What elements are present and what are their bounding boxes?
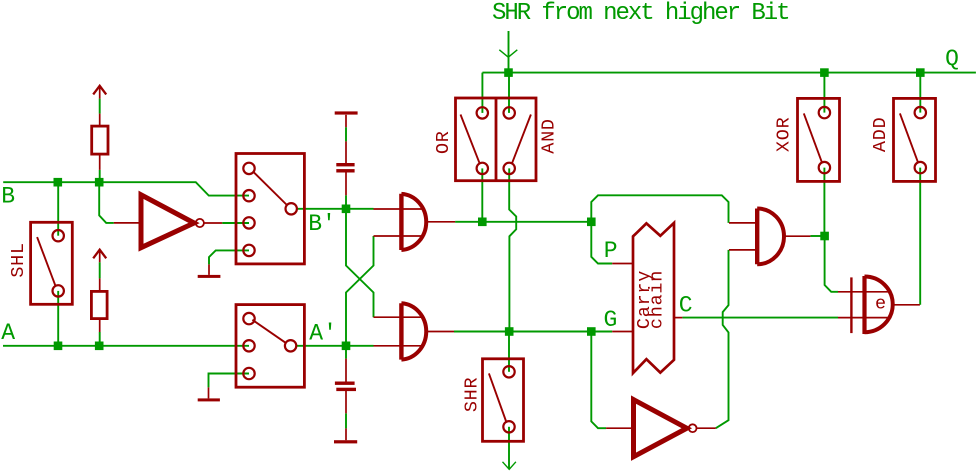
wire: P line from gate U2 output to P branch node [455, 221, 591, 223]
node: Q/ADD junction [916, 68, 925, 77]
pin: R2 top [99, 278, 101, 291]
switch ADD arm [900, 113, 918, 161]
wire: capacitor C1 lower link to B' node [345, 195, 347, 204]
wire: G node down to inverter U5 input [591, 332, 606, 429]
pin: R1 top [99, 114, 101, 127]
pin: gate U2 output [428, 221, 455, 223]
inverter U5 [634, 400, 697, 457]
pin: ground 1 stem [208, 264, 210, 275]
switch AND arm [512, 115, 531, 164]
wire: resistor R2 to A bus node [99, 332, 101, 346]
pin: gate U3 input b [374, 345, 423, 347]
wire: gate U4 output to XOR node [810, 235, 824, 237]
switch SHR box [483, 359, 524, 442]
node: Q/SHR junction [504, 68, 513, 77]
wire: G line node down to SHR switch top pin [508, 332, 510, 372]
switch XOR box [798, 98, 840, 181]
node: B' junction [342, 205, 351, 214]
pin: gate U2 input a [374, 208, 423, 210]
switch SHR pin circles [503, 366, 514, 432]
wire: inverter U5 output up to gate U4 bottom input (jog over C line) [716, 250, 729, 428]
pin: capacitor C1 middle [345, 141, 347, 163]
switch SHR arm [489, 373, 507, 422]
AND gate U4 [757, 209, 784, 265]
wire: A input bus [3, 345, 249, 347]
pin: gate U4 input b [729, 249, 756, 251]
pin: gate U3 input a [374, 316, 423, 318]
pin: capacitor C1 bottom [345, 173, 347, 196]
wire: SHR input from next higher bit (vertical with down arrow) [499, 31, 517, 73]
svg-text:SHR: SHR [462, 377, 483, 413]
switch SHL arm [37, 237, 55, 286]
pin: carry chain G input [612, 331, 633, 333]
capacitor C1 plate 1 [336, 163, 354, 166]
selector A' pin circles [243, 313, 296, 379]
pin: carry chain P input [612, 263, 633, 265]
wire: OR switch bottom pin down to P line node [481, 168, 483, 221]
wire: B input bus [3, 182, 249, 195]
pin: carry chain C output [675, 317, 683, 319]
node: G/AND junction [505, 327, 514, 336]
capacitor C2 rail bar [334, 440, 357, 443]
node: B/SHL junction [54, 178, 63, 187]
wire: B node to SHL switch top pin [57, 182, 59, 236]
node: P branch junction [587, 218, 596, 227]
svg-text:Q: Q [945, 46, 959, 72]
node: XOR/U4 junction [820, 232, 829, 241]
AND gate U2 [401, 194, 426, 250]
svg-text:A: A [1, 320, 15, 346]
wire: gate U6 output up to ADD switch bottom pin [919, 168, 921, 305]
selector B' pin circles [243, 163, 297, 256]
pin: inverter U5 output [697, 427, 716, 429]
svg-text:AND: AND [538, 118, 559, 154]
switch AND pin circles [504, 107, 515, 174]
wire: inverter U1 output to selector pin 3 [222, 222, 249, 224]
capacitor C1 rail bar [335, 111, 358, 114]
svg-text:SHL: SHL [8, 242, 29, 278]
svg-text:A': A' [309, 320, 337, 346]
svg-text:C: C [679, 293, 693, 319]
wire: SHR switch bottom pin to output arrow [503, 427, 516, 470]
switch OR arm [461, 115, 480, 164]
selector A' box [236, 305, 304, 388]
node: Q/XOR junction [820, 68, 829, 77]
pin: gate U6 input a [838, 291, 889, 293]
capacitor C2 plate 2 [336, 388, 356, 391]
wire: Q output bus [482, 72, 976, 74]
svg-text:XOR: XOR [774, 117, 795, 153]
svg-text:e: e [875, 293, 887, 314]
svg-text:G: G [604, 307, 618, 333]
wire: B' node cross down to AND gate U3 upper input [346, 209, 374, 317]
selector B' arm [254, 172, 288, 205]
inverter U1 [141, 195, 204, 248]
wire: C line from carry chain to gate U6 lower input [682, 317, 838, 319]
switch OR/AND divider [495, 98, 498, 181]
selector A' arm [252, 320, 286, 343]
svg-text:P: P [604, 238, 618, 264]
pin: ground 2 stem [208, 387, 210, 398]
switch OR pin circles [477, 107, 488, 174]
switch XOR arm [804, 113, 822, 161]
pin: R1 bottom [99, 154, 101, 170]
pin: capacitor C1 top [345, 115, 347, 127]
selector B' box [236, 154, 304, 264]
wire: P node up and across to gate U4 top input [591, 195, 728, 223]
node: A' junction [342, 342, 351, 351]
switch SHL box [31, 222, 73, 304]
power arrow above R2 [93, 250, 106, 263]
switch OR/AND box [456, 98, 537, 181]
carry chain U7 [633, 223, 674, 373]
switch SHL pin circles [53, 230, 64, 297]
wire: G line from gate U3 output to G node [454, 331, 591, 333]
wire: resistor R1 to B bus node [99, 170, 101, 182]
pin: capacitor C2 bottom [345, 428, 347, 440]
AND gate U3 [401, 303, 426, 359]
wire: P node down to carry chain P input [591, 222, 612, 264]
wire: A' output line [296, 345, 373, 347]
pin: capacitor C2 middle [345, 391, 347, 413]
wire: Q bus corner down to OR switch top pin [481, 73, 483, 113]
resistor R1 [92, 126, 108, 154]
switch XOR pin circles [819, 107, 830, 173]
svg-text:SHR from next higher Bit: SHR from next higher Bit [492, 0, 788, 27]
pin: R2 bottom [99, 319, 101, 332]
pin: gate U2 input b [374, 235, 423, 237]
node: B/R1 junction [95, 178, 104, 187]
wire: capacitor C2 upper link from A' node [345, 350, 347, 359]
wire: A' node cross up to AND gate U2 lower input [346, 236, 374, 346]
capacitor C2 plate 1 [335, 382, 355, 385]
node: A/SHL junction [54, 342, 63, 351]
pin: inverter U1 output [204, 222, 222, 224]
wire: pullup arrow to resistor R2 [99, 262, 101, 278]
wire: B bus to inverter U1 input [99, 182, 114, 223]
wire: XOR switch top pin to Q bus [823, 73, 825, 113]
wire: capacitor C2 lower link to rail bar [345, 413, 347, 428]
node: G branch junction [587, 327, 596, 336]
wire: G node to carry chain G input [591, 331, 612, 333]
capacitor C1 plate 2 [336, 169, 354, 172]
wire: ADD switch top pin to Q bus [919, 73, 921, 113]
switch ADD pin circles [915, 107, 926, 173]
svg-text:OR: OR [433, 130, 454, 154]
pin: capacitor C2 top [345, 359, 347, 382]
wire: selector A' pin 3 to ground [209, 374, 250, 388]
wire: AND switch top pin to Q bus node [508, 73, 510, 113]
svg-text:B: B [1, 183, 15, 209]
pin: gate U4 output [784, 235, 810, 237]
ground 1 bar [198, 275, 221, 278]
gate U6 (e) body [851, 276, 892, 334]
ground 2 bar [198, 398, 220, 401]
pin: inverter U1 input [114, 222, 139, 224]
wire: selector B' pin 4 to ground [209, 250, 249, 264]
wire: capacitor C1 upper link [345, 127, 347, 141]
svg-text:ADD: ADD [870, 117, 891, 153]
node: P/OR junction [478, 218, 487, 227]
svg-text:chain: chain [646, 270, 667, 329]
svg-text:B': B' [308, 211, 336, 237]
power arrow above R1 [93, 86, 106, 99]
wire: B' output line [297, 208, 374, 210]
wire: XOR node down to gate U6 upper input [825, 236, 838, 292]
pin: gate U6 output [893, 304, 920, 306]
pin: gate U3 output [428, 331, 454, 333]
wire: AND switch bottom pin down to G line (jog over P line) [509, 168, 516, 331]
node: A/R2 junction [95, 342, 104, 351]
wire: XOR switch bottom pin down to node [823, 168, 825, 236]
switch ADD box [894, 98, 936, 181]
wire: pullup arrow to resistor R1 [99, 99, 101, 114]
resistor R2 [91, 291, 107, 318]
pin: gate U6 input b [838, 317, 889, 319]
pin: gate U4 input a [729, 222, 756, 224]
wire: SHL switch bottom pin to A bus [57, 291, 59, 346]
pin: inverter U5 input [606, 427, 631, 429]
